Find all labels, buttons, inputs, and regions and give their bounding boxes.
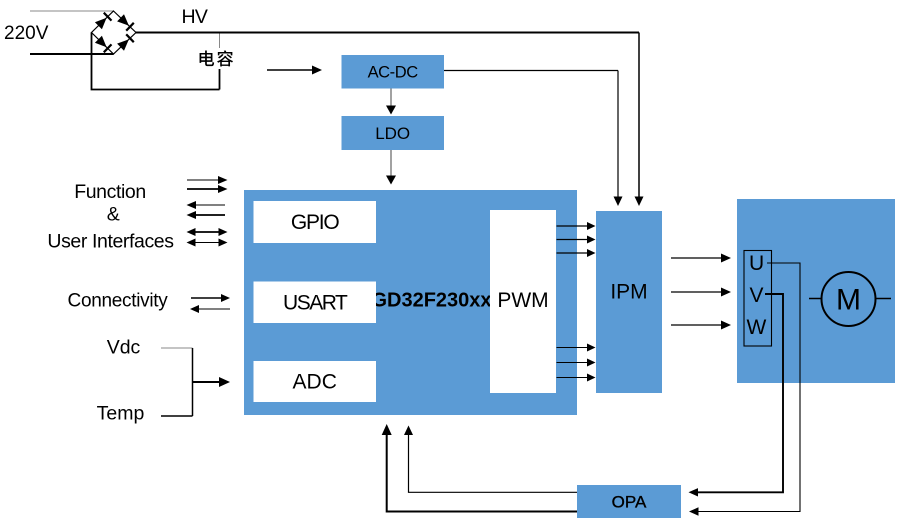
- diode D2: [117, 14, 129, 26]
- arrow right 2: [187, 188, 219, 190]
- wire HV bus: [136, 33, 644, 207]
- svg-text:LDO: LDO: [375, 124, 410, 143]
- diode D3: [95, 36, 107, 48]
- motor M1: [809, 272, 891, 326]
- svg-text:Connectivity: Connectivity: [68, 291, 169, 312]
- GPIO block: [254, 201, 377, 243]
- svg-text:U: U: [749, 252, 764, 275]
- wire AC input top: [30, 10, 114, 12]
- PWM block: [490, 210, 556, 393]
- MCU GD32F230xx block: [244, 190, 577, 415]
- arrow capacitor to AC-DC: [267, 66, 322, 75]
- USART block: [254, 282, 377, 324]
- wire Vdc/Temp bracket: [161, 348, 193, 416]
- capacitor C1 wire lower segment: [219, 69, 221, 90]
- svg-text:IPM: IPM: [610, 281, 647, 304]
- LDO block: [342, 116, 445, 150]
- GPIO arrows (function/user interface): [187, 176, 228, 247]
- wire OPA to MCU (upper): [404, 426, 577, 493]
- wire DC return (bridge left corner down and right): [92, 33, 220, 90]
- OPA block: [577, 485, 681, 518]
- bridge rectifier BR1: [92, 11, 137, 54]
- UVW terminal block: [744, 251, 772, 347]
- arrow AC-DC to LDO: [386, 89, 396, 115]
- arrow to ADC: [193, 377, 231, 387]
- label Function & User Interfaces: [47, 181, 174, 253]
- capacitor C1 wire upper segment: [219, 33, 221, 49]
- svg-text:&: &: [107, 204, 120, 226]
- PWM to IPM arrows bottom: [557, 344, 596, 382]
- arrow left 2: [195, 214, 225, 216]
- wire AC input bottom: [30, 53, 114, 55]
- IPM block: [596, 211, 662, 393]
- arrow right 1: [187, 179, 219, 181]
- motor drive block: [737, 199, 895, 383]
- svg-text:W: W: [747, 316, 767, 339]
- svg-text:220V: 220V: [4, 23, 49, 44]
- arrow left 1: [195, 204, 225, 206]
- svg-text:User Interfaces: User Interfaces: [47, 231, 174, 253]
- USART arrows (connectivity): [190, 294, 230, 313]
- svg-text:OPA: OPA: [612, 493, 647, 512]
- svg-text:AC-DC: AC-DC: [368, 63, 419, 81]
- svg-text:USART: USART: [283, 292, 348, 315]
- svg-text:V: V: [750, 284, 764, 307]
- capacitor C1 label 电容: [200, 50, 234, 66]
- svg-text:GD32F230xx: GD32F230xx: [371, 290, 491, 312]
- svg-text:Temp: Temp: [97, 403, 145, 425]
- wire U phase feedback: [689, 263, 800, 516]
- svg-text:Function: Function: [74, 181, 146, 203]
- arrows IPM to motor drive: [671, 254, 731, 330]
- svg-text:GPIO: GPIO: [291, 211, 340, 234]
- svg-text:PWM: PWM: [497, 289, 548, 312]
- diode D4: [117, 39, 129, 51]
- diode D1: [95, 18, 107, 30]
- svg-text:ADC: ADC: [293, 371, 337, 394]
- svg-text:HV: HV: [182, 6, 208, 28]
- wire OPA to MCU (lower): [382, 424, 577, 512]
- wire AC-DC to IPM: [444, 71, 623, 207]
- AC-DC converter block: [342, 55, 445, 89]
- arrow both 1: [194, 231, 220, 233]
- svg-text:Vdc: Vdc: [107, 337, 141, 359]
- ADC block: [254, 361, 377, 402]
- wire V phase feedback: [689, 294, 784, 497]
- arrow LDO to MCU: [386, 150, 396, 185]
- PWM to IPM arrows top: [557, 222, 596, 257]
- arrow both 2: [194, 242, 220, 244]
- svg-text:M: M: [836, 284, 861, 317]
